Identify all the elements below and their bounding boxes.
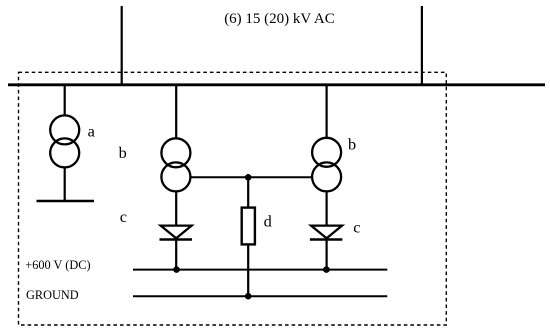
wire: transformer a to ground [64,167,66,202]
wire: bus to transformer a [64,85,66,116]
svg-text:d: d [264,212,272,231]
junction dot: c1 on +600V bus [173,266,180,273]
junction dot: resistor on ground bus [245,293,252,300]
wire: b2 to diode c2 [326,191,328,227]
+600V DC bus [133,269,387,271]
ground bar [37,200,95,203]
wire: resistor d to ground bus (crosses +600V bus) [247,244,249,296]
svg-text:c: c [120,207,127,226]
wire: b1 to diode c1 [175,191,177,227]
ground bus [133,295,387,297]
transformer a [50,115,79,167]
transformer b1 [161,138,190,191]
svg-text:c: c [353,218,360,237]
wire: AC feeder drop 1 [121,6,123,86]
AC bus bar [8,83,545,86]
substation boundary (dashed box) [19,72,447,325]
junction dot: resistor tap on midpoint link [245,174,252,181]
wire: midpoint link b1 to b2 [190,176,313,178]
svg-text:(6) 15 (20) kV AC: (6) 15 (20) kV AC [224,11,335,27]
transformer b2 [312,138,341,192]
wire: midpoint tap to resistor d [247,177,249,208]
wire: diode c1 to +600V bus [175,240,177,270]
svg-text:+600 V (DC): +600 V (DC) [25,258,90,272]
diode c2 [310,226,343,240]
resistor d [242,208,255,245]
svg-text:b: b [348,135,356,154]
svg-text:GROUND: GROUND [26,288,79,302]
wire: AC feeder drop 2 [421,6,423,86]
wire: bus to transformer b1 [175,85,177,139]
svg-text:b: b [119,143,127,162]
diode c1 [160,226,193,240]
junction dot: c2 on +600V bus [323,266,330,273]
svg-text:a: a [88,122,95,141]
wire: bus to transformer b2 [326,85,328,139]
wire: diode c2 to +600V bus [326,240,328,270]
